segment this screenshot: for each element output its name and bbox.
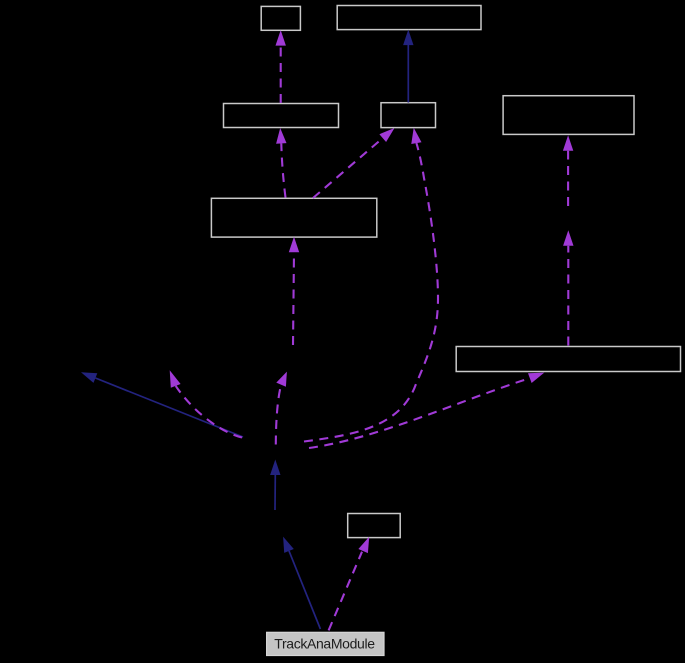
solid inheritance arrow TrackAnaModule to hidden node bbox=[283, 537, 320, 629]
solid inheritance arrow N4 to N2 bbox=[403, 30, 413, 103]
dashed usage arrow hub to hidden node (left) bbox=[170, 370, 242, 437]
dashed usage arrow hub to hidden node (middle) bbox=[276, 372, 287, 445]
dashed usage arrow N3 to N1 bbox=[276, 30, 286, 103]
class node N7 (wide right box) bbox=[456, 347, 680, 372]
dashed usage arrow hidden node to N6 bbox=[289, 237, 299, 345]
dashed usage arrow hub to N4 (long S curve) bbox=[304, 128, 438, 442]
class node N4 (second row small box) bbox=[381, 103, 436, 128]
class node N2 (top wide box) bbox=[337, 6, 481, 30]
class node N5 (right tall box) bbox=[503, 96, 634, 135]
class node N8 (small box above TrackAnaModule) bbox=[348, 514, 401, 538]
solid inheritance arrow hub to top-left hidden node bbox=[81, 372, 243, 437]
class node TrackAnaModule (filled) bbox=[267, 632, 384, 655]
dashed usage arrow hub to N7 bbox=[309, 373, 544, 448]
svg-text:TrackAnaModule: TrackAnaModule bbox=[274, 635, 375, 651]
dashed usage arrow hidden mid node to N5 bbox=[563, 135, 573, 206]
class node N1 (top small box) bbox=[261, 6, 300, 30]
class node N3 (second row left box) bbox=[224, 104, 339, 128]
dashed usage arrow N6 to N3 bbox=[276, 128, 286, 198]
dashed usage arrow N7 to hidden mid node bbox=[563, 230, 573, 345]
class node N6 (third row tall box) bbox=[211, 198, 376, 237]
dashed usage arrow TrackAnaModule to N8 bbox=[329, 537, 370, 631]
solid inheritance arrow hidden node to hub bbox=[270, 460, 280, 511]
dashed usage arrow N6 to N4 bbox=[313, 128, 395, 198]
